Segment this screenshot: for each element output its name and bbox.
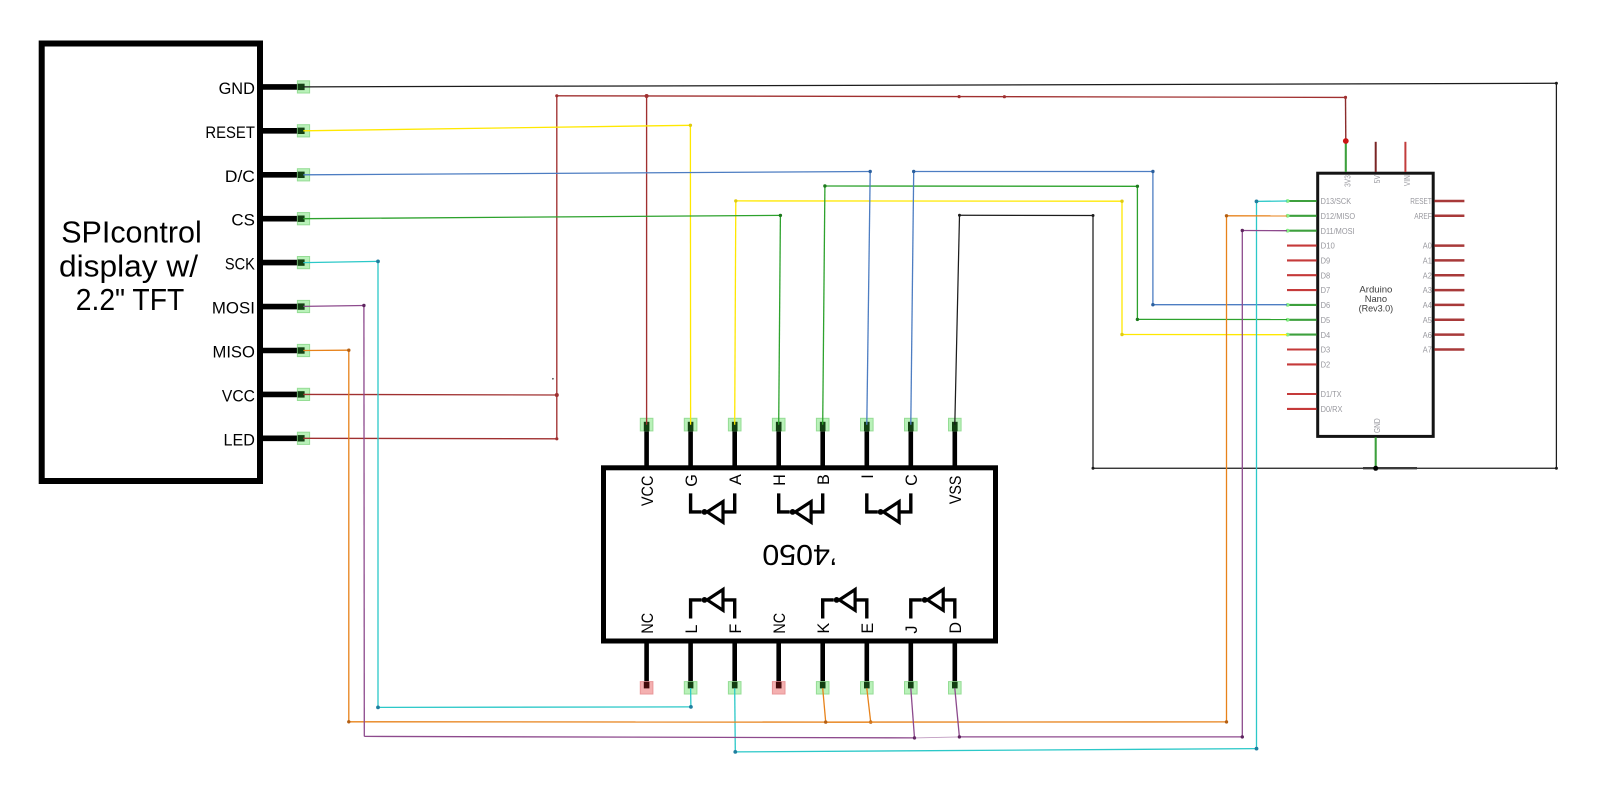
- wire: 4050 pin A up (yellow to D4): [735, 201, 736, 425]
- 4050 pin B (top, pin 5): [815, 418, 833, 485]
- svg-text:A7: A7: [1423, 345, 1432, 355]
- MCU module: Arduino Nano (Rev3.0): [1318, 173, 1434, 436]
- wire: display MOSI to bend (purple): [303, 305, 364, 308]
- wire: GND net horizontal to 4050 VSS: [960, 214, 1094, 216]
- Arduino pin A6 (right): [1423, 330, 1465, 340]
- wire: display VCC branch: [303, 393, 557, 396]
- 4050 pin A (top, pin 3): [727, 418, 745, 485]
- svg-text:E: E: [859, 623, 877, 634]
- display pin D/C: [225, 168, 310, 186]
- svg-text:SCK: SCK: [225, 256, 255, 274]
- wire: blue horizontal to x=1153: [914, 171, 1153, 173]
- bendpoint dots GND net: [1555, 82, 1558, 85]
- svg-text:3V3: 3V3: [1342, 175, 1352, 187]
- wire: 4050 pin F down (cyan to D13): [734, 688, 737, 752]
- wire: green horizontal to x=1137: [825, 185, 1138, 187]
- display pin SCK: [225, 256, 310, 274]
- svg-text:D10: D10: [1321, 241, 1335, 251]
- svg-text:VCC: VCC: [639, 475, 657, 506]
- wire: GND net vertical at x=1093: [1092, 216, 1094, 469]
- wire: VCC branch down to 4050 VCC pad: [646, 96, 648, 425]
- svg-text:GND: GND: [1372, 418, 1382, 433]
- bendpoint dots orange net 1: [347, 349, 350, 352]
- 4050 pin NC (bottom, pin 12): [771, 613, 789, 694]
- wire: blue into Arduino D6: [1153, 304, 1287, 306]
- Arduino pin RESET (right): [1410, 196, 1464, 206]
- svg-text:2.2" TFT: 2.2" TFT: [76, 283, 185, 317]
- wire: yellow horizontal to x=1122: [736, 200, 1122, 202]
- svg-text:D1/TX: D1/TX: [1321, 389, 1342, 399]
- svg-text:D7: D7: [1321, 285, 1331, 295]
- wire: cyan bottom horizontal to x=1256: [735, 749, 1256, 752]
- Arduino pin A5 (right): [1423, 315, 1465, 325]
- wire: orange rise to 4050 pin E pad: [867, 688, 871, 722]
- bendpoint dots orange net 2: [824, 720, 827, 723]
- wire: short thick GND overlap segment at Arduino GND: [1363, 467, 1417, 469]
- wire: yellow vertical down to D4 row: [1121, 201, 1123, 334]
- 4050 buffer symbol (top) between pins at x=867: [867, 493, 911, 522]
- svg-text:D/C: D/C: [225, 168, 255, 186]
- svg-text:MOSI: MOSI: [212, 300, 255, 318]
- svg-text:A5: A5: [1423, 315, 1432, 325]
- wire: green drop to 4050 pin H: [779, 215, 781, 424]
- display pin MOSI: [212, 300, 310, 318]
- Arduino pin GND (bottom): [1372, 418, 1382, 468]
- Arduino pin D2 (left): [1287, 360, 1330, 370]
- Arduino pin D3 (left): [1287, 345, 1330, 355]
- Arduino pin D5 (left): [1286, 315, 1331, 325]
- wire: purple rise to 4050 pin J pad: [911, 688, 915, 738]
- display pin CS: [231, 212, 309, 230]
- wire: orange bottom horizontal to x=1226: [826, 721, 1227, 723]
- svg-text:RESET: RESET: [205, 124, 255, 142]
- svg-text:D: D: [947, 622, 965, 634]
- bendpoint dots yellow net 2: [734, 199, 737, 202]
- svg-text:C: C: [903, 474, 921, 486]
- wire: blue vertical down to D6 row: [1152, 172, 1154, 305]
- svg-text:F: F: [727, 624, 745, 634]
- wire: cyan vertical down at x=378: [377, 261, 379, 707]
- svg-text:B: B: [815, 474, 833, 485]
- bendpoint: green CS: [779, 214, 782, 217]
- svg-text:G: G: [683, 474, 701, 487]
- svg-text:J: J: [903, 626, 921, 634]
- wire: cyan vertical up to D13 row: [1256, 201, 1258, 748]
- svg-text:5V: 5V: [1372, 175, 1382, 183]
- Arduino pin D7 (left): [1287, 285, 1330, 295]
- wire: 4050 pin D down (purple to D11): [955, 688, 960, 737]
- wire: faint purple bridge: [915, 737, 960, 738]
- svg-text:D8: D8: [1321, 270, 1331, 280]
- svg-text:D2: D2: [1321, 360, 1331, 370]
- wire: orange vertical up to D12 row: [1226, 216, 1228, 722]
- bendpoint dots blue net 2: [912, 170, 915, 173]
- 4050 buffer symbol (bottom) between pins at x=691: [691, 590, 735, 619]
- display pin GND: [219, 80, 310, 98]
- wire: orange into Arduino D12/MISO: [1227, 215, 1288, 217]
- display pin RESET: [205, 124, 309, 142]
- wire: VCC drop to 3V3 junction: [1345, 97, 1347, 140]
- svg-text:LED: LED: [224, 431, 255, 449]
- svg-text:D9: D9: [1321, 256, 1331, 266]
- wire: GND net bottom horizontal to Arduino GND: [1093, 467, 1556, 469]
- 4050 pin J (bottom, pin 15): [903, 626, 921, 694]
- wire: green into Arduino D5: [1137, 318, 1287, 320]
- wire: 4050 pin B up (green to D5): [823, 186, 825, 425]
- svg-text:VIN: VIN: [1402, 175, 1412, 186]
- svg-text:display w/: display w/: [59, 249, 199, 283]
- display module: SPI control display w/ 2.2in TFT: [42, 44, 260, 482]
- svg-text:NC: NC: [639, 613, 657, 634]
- Arduino pin D1/TX (left): [1287, 389, 1342, 399]
- svg-text:SPIcontrol: SPIcontrol: [61, 216, 202, 250]
- display pin MISO: [213, 344, 310, 362]
- wire: 4050 pin C up (blue to D6): [911, 172, 914, 425]
- 4050 pin F (bottom, pin 11): [727, 624, 745, 694]
- junction: VCC net at display VCC branch: [555, 393, 559, 397]
- bendpoint dots cyan net 1: [376, 260, 380, 264]
- svg-text:D5: D5: [1321, 315, 1331, 325]
- junction: VCC at 3V3 pin: [1343, 138, 1349, 144]
- Arduino pin A3 (right): [1423, 285, 1465, 295]
- Arduino pin D13/SCK (left): [1286, 196, 1352, 206]
- bendpoint dots purple net 2: [958, 735, 961, 738]
- 4050 pin NC (bottom, pin 9): [639, 613, 657, 694]
- junction: GND at Arduino GND pin: [1373, 466, 1378, 471]
- svg-text:CS: CS: [231, 212, 255, 230]
- svg-text:MISO: MISO: [213, 344, 256, 362]
- wire: display D/C to bend (blue): [303, 172, 870, 175]
- Arduino pin D11/MOSI (left): [1286, 226, 1355, 236]
- svg-text:L: L: [683, 625, 701, 634]
- svg-text:A0: A0: [1423, 241, 1432, 251]
- wire: display CS to bend (green): [303, 215, 780, 218]
- svg-text:VCC: VCC: [222, 387, 255, 405]
- Arduino pin VIN (top): [1402, 142, 1412, 186]
- wire: purple bottom horizontal to x=1242: [959, 736, 1242, 738]
- wire: purple into Arduino D11/MOSI: [1242, 230, 1287, 232]
- display pin VCC: [222, 387, 310, 405]
- Arduino pin A4 (right): [1423, 300, 1465, 310]
- wire: purple bottom horizontal to J bend: [364, 736, 914, 738]
- wire: purple vertical down at x=364: [363, 306, 365, 737]
- wire: purple vertical up to D11 row: [1241, 231, 1243, 737]
- svg-text:(Rev3.0): (Rev3.0): [1359, 302, 1394, 313]
- 4050 buffer symbol (bottom) between pins at x=911: [911, 590, 955, 619]
- 4050 pin G (top, pin 2): [683, 418, 701, 486]
- svg-text:H: H: [771, 474, 789, 486]
- 4050 buffer symbol (top) between pins at x=779: [779, 493, 823, 522]
- wire: display SCK to bend (cyan): [303, 261, 378, 262]
- svg-text:D4: D4: [1321, 330, 1331, 340]
- wire: VCC net top horizontal to Arduino 3V3: [557, 96, 1346, 98]
- wire: GND net drop to VSS pad: [955, 215, 960, 424]
- 4050 pin K (bottom, pin 13): [815, 623, 833, 694]
- 4050 buffer symbol (top) between pins at x=691: [691, 493, 735, 522]
- svg-text:GND: GND: [219, 80, 255, 98]
- wire: green vertical down to D5 row: [1136, 186, 1138, 319]
- Arduino pin D0/RX (left): [1287, 404, 1343, 414]
- bendpoint dots cyan net 2: [733, 750, 737, 754]
- Arduino pin A7 (right): [1423, 345, 1465, 355]
- svg-text:RESET: RESET: [1410, 196, 1432, 206]
- bendpoint dots VCC net: [555, 94, 558, 97]
- svg-text:’4050: ’4050: [762, 538, 837, 570]
- wire: display RESET to bend (yellow): [303, 125, 690, 131]
- 4050 buffer symbol (bottom) between pins at x=823: [823, 590, 867, 619]
- 4050 pin H (top, pin 4): [771, 418, 789, 486]
- svg-text:A6: A6: [1423, 330, 1432, 340]
- Arduino pin D9 (left): [1287, 256, 1330, 266]
- svg-text:D11/MOSI: D11/MOSI: [1321, 226, 1355, 236]
- wire: yellow into Arduino D4: [1122, 334, 1287, 336]
- junction: VCC net at 4050 VCC branch: [645, 94, 649, 98]
- display pin LED: [224, 431, 310, 449]
- 4050 pin L (bottom, pin 10): [683, 625, 701, 694]
- 4050 pin E (bottom, pin 14): [859, 623, 877, 694]
- buffer IC U1: 4050: [604, 468, 996, 641]
- Arduino pin A2 (right): [1423, 270, 1465, 280]
- wire: cyan rise to 4050 pin L pad: [690, 688, 692, 707]
- svg-text:A4: A4: [1423, 300, 1432, 310]
- wire: orange bottom horizontal to E bend: [349, 721, 871, 723]
- svg-text:VSS: VSS: [947, 475, 965, 504]
- svg-text:D12/MISO: D12/MISO: [1321, 211, 1356, 221]
- Arduino pin D4 (left): [1286, 330, 1331, 340]
- Arduino pin D8 (left): [1287, 270, 1330, 280]
- svg-text:K: K: [815, 623, 833, 634]
- svg-text:D6: D6: [1321, 300, 1331, 310]
- bendpoint: yellow RESET: [689, 124, 692, 127]
- svg-text:NC: NC: [771, 613, 789, 634]
- wire: GND net right-side vertical: [1555, 83, 1557, 468]
- bendpoint dots purple net 1: [362, 304, 365, 307]
- wire: VCC net vertical at x=557: [556, 96, 558, 439]
- bendpoint dots green net 2: [823, 184, 826, 187]
- svg-text:D3: D3: [1321, 345, 1331, 355]
- svg-text:D0/RX: D0/RX: [1321, 404, 1343, 414]
- 4050 pin D (bottom, pin 16): [947, 622, 965, 694]
- wire: blue drop to 4050 pin I: [867, 172, 870, 425]
- svg-text:A: A: [727, 474, 745, 485]
- wire: cyan bottom horizontal to L: [378, 706, 691, 709]
- wire: display GND to top right corner (black GND net): [303, 83, 1556, 87]
- 4050 pin VSS (top, pin 8): [947, 418, 965, 504]
- svg-text:AREF: AREF: [1414, 211, 1432, 221]
- Arduino pin 3V3 (top): [1342, 142, 1352, 187]
- wire: display MISO to bend (orange): [303, 349, 349, 351]
- svg-text:A1: A1: [1423, 256, 1432, 266]
- Arduino pin A1 (right): [1423, 256, 1465, 266]
- wire: display LED to vertical (dark red VCC net): [303, 437, 557, 440]
- wire: yellow drop to 4050 pin G: [689, 125, 691, 425]
- svg-text:A3: A3: [1423, 285, 1432, 295]
- Arduino pin A0 (right): [1423, 241, 1465, 251]
- Arduino pin D12/MISO (left): [1286, 211, 1356, 221]
- svg-text:A2: A2: [1423, 270, 1432, 280]
- Arduino pin D6 (left): [1286, 300, 1331, 310]
- wire: orange vertical down at x=349: [348, 350, 350, 722]
- Arduino pin 5V (top): [1372, 142, 1382, 183]
- svg-text:D13/SCK: D13/SCK: [1321, 196, 1352, 206]
- bendpoint: blue D/C: [869, 170, 872, 173]
- 4050 pin VCC (top, pin 1): [639, 418, 657, 506]
- 4050 pin C (top, pin 7): [903, 418, 921, 486]
- Arduino pin D10 (left): [1287, 241, 1335, 251]
- Arduino pin AREF (right): [1414, 211, 1464, 221]
- stray speck: [552, 378, 554, 380]
- svg-text:I: I: [859, 474, 877, 479]
- 4050 pin I (top, pin 6): [859, 418, 877, 478]
- wire: 4050 pin K down (orange to D12): [823, 688, 826, 722]
- wire: cyan into Arduino D13/SCK: [1257, 200, 1288, 202]
